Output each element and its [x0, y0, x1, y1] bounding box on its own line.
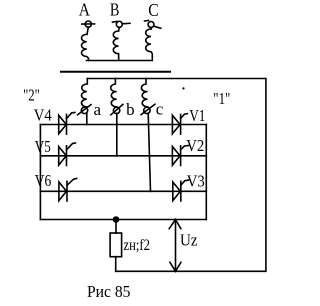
svg-text:V2: V2: [186, 136, 204, 155]
load resistor zн;f2: [110, 233, 122, 257]
svg-text:V6: V6: [35, 171, 52, 190]
group label "1": [213, 89, 230, 108]
primary winding C: [146, 29, 153, 59]
svg-text:c: c: [156, 99, 164, 118]
svg-text:Рис 85: Рис 85: [87, 282, 131, 301]
thyristor V4: [59, 112, 75, 134]
label V5: [35, 137, 51, 156]
wire terminal B to winding B: [118, 27, 121, 31]
primary star bus: [87, 60, 153, 62]
thyristor V1: [172, 114, 187, 135]
wire terminal A to winding A: [87, 27, 88, 34]
label a: [94, 100, 102, 119]
svg-text:"1": "1": [213, 89, 230, 108]
terminal a: [78, 105, 91, 115]
label V2: [186, 136, 204, 155]
terminal b: [111, 104, 123, 114]
junction node: [113, 216, 120, 223]
svg-text:V4: V4: [34, 106, 52, 125]
svg-text:zн;f2: zн;f2: [124, 237, 151, 254]
label Uz: [180, 231, 198, 250]
svg-text:a: a: [94, 100, 102, 119]
svg-text:B: B: [110, 0, 120, 20]
phase label C: [148, 0, 158, 20]
svg-text:Uz: Uz: [180, 231, 198, 250]
bridge right bus: [205, 125, 207, 220]
stray ink dot: [182, 87, 184, 89]
wire b to row2: [116, 113, 118, 155]
group label "2": [23, 85, 40, 104]
svg-text:V3: V3: [187, 171, 205, 190]
phase label A: [79, 0, 90, 20]
svg-text:V5: V5: [35, 137, 51, 156]
label V3: [187, 171, 205, 190]
secondary star bus / outer loop to "1": [87, 79, 266, 272]
label V1: [189, 106, 205, 125]
wire row1: [40, 124, 206, 126]
terminal C: [145, 20, 161, 28]
wire load to bottom bus: [115, 257, 117, 272]
primary winding A: [82, 34, 89, 60]
svg-text:"2": "2": [23, 85, 40, 104]
thyristor V3: [173, 180, 189, 201]
transformer core: [61, 71, 170, 73]
thyristor V6: [59, 178, 77, 201]
svg-text:V1: V1: [189, 106, 205, 125]
wire node to load: [115, 220, 117, 234]
wire terminal C to winding C: [150, 28, 152, 29]
terminal A: [82, 21, 95, 27]
terminal B: [113, 21, 131, 27]
label V4: [34, 106, 52, 125]
wire row2: [40, 155, 206, 157]
bridge left bus: [39, 125, 41, 220]
wire a to row1: [86, 113, 88, 124]
caption Рис 85: [87, 282, 131, 301]
label V6: [35, 171, 52, 190]
thyristor V5: [59, 143, 76, 166]
phase label B: [110, 0, 120, 20]
label b: [126, 100, 135, 119]
svg-text:b: b: [126, 100, 135, 119]
svg-text:A: A: [79, 0, 90, 20]
thyristor V2: [172, 146, 188, 166]
secondary winding b: [111, 79, 117, 107]
wire c to row3: [148, 113, 150, 191]
wire row3: [40, 190, 206, 192]
voltage arrow Uz: [169, 220, 181, 272]
label zн;f2: [124, 237, 151, 254]
svg-text:C: C: [148, 0, 158, 20]
secondary winding c: [141, 79, 147, 107]
bottom bus: [40, 219, 206, 221]
label c: [156, 99, 164, 118]
terminal c: [141, 104, 155, 114]
secondary winding a: [82, 79, 88, 107]
primary winding B: [113, 31, 118, 61]
